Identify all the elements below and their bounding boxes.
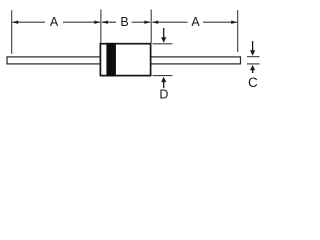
left lead bbox=[7, 57, 101, 64]
arrowhead right of dimension A left bbox=[94, 21, 100, 24]
diode body bbox=[100, 44, 150, 76]
C down arrow bbox=[252, 41, 254, 52]
arrowhead left of dimension B bbox=[102, 21, 108, 24]
extension line left end of left lead bbox=[11, 10, 13, 54]
arrowhead right of dimension A right bbox=[231, 21, 237, 24]
D dimension bottom tick (body bottom extension) bbox=[153, 75, 173, 77]
C dimension bottom tick (lead bottom extension) bbox=[247, 63, 260, 65]
C dimension top tick (lead top extension) bbox=[247, 56, 260, 58]
D up arrow bbox=[163, 81, 165, 88]
cathode band bbox=[106, 43, 116, 77]
C up arrow bbox=[252, 69, 254, 73]
extension line body left edge bbox=[100, 10, 102, 44]
dimension line A right segment bbox=[152, 21, 187, 23]
right lead bbox=[150, 57, 241, 64]
arrowhead left of dimension A left bbox=[12, 21, 18, 24]
svg-text:D: D bbox=[159, 88, 168, 102]
D dimension top tick (body top extension) bbox=[153, 43, 173, 45]
dimension line B bbox=[102, 21, 116, 23]
arrowhead left of dimension A right bbox=[152, 21, 158, 24]
extension line right end of right lead bbox=[237, 10, 239, 52]
svg-text:A: A bbox=[191, 15, 200, 29]
D down arrow bbox=[163, 28, 165, 39]
svg-text:B: B bbox=[120, 15, 128, 29]
extension line body right edge bbox=[150, 10, 152, 44]
svg-text:A: A bbox=[50, 15, 59, 29]
svg-text:C: C bbox=[248, 75, 258, 90]
dimension line A left segment bbox=[13, 21, 46, 23]
arrowhead right of dimension B bbox=[144, 21, 150, 24]
